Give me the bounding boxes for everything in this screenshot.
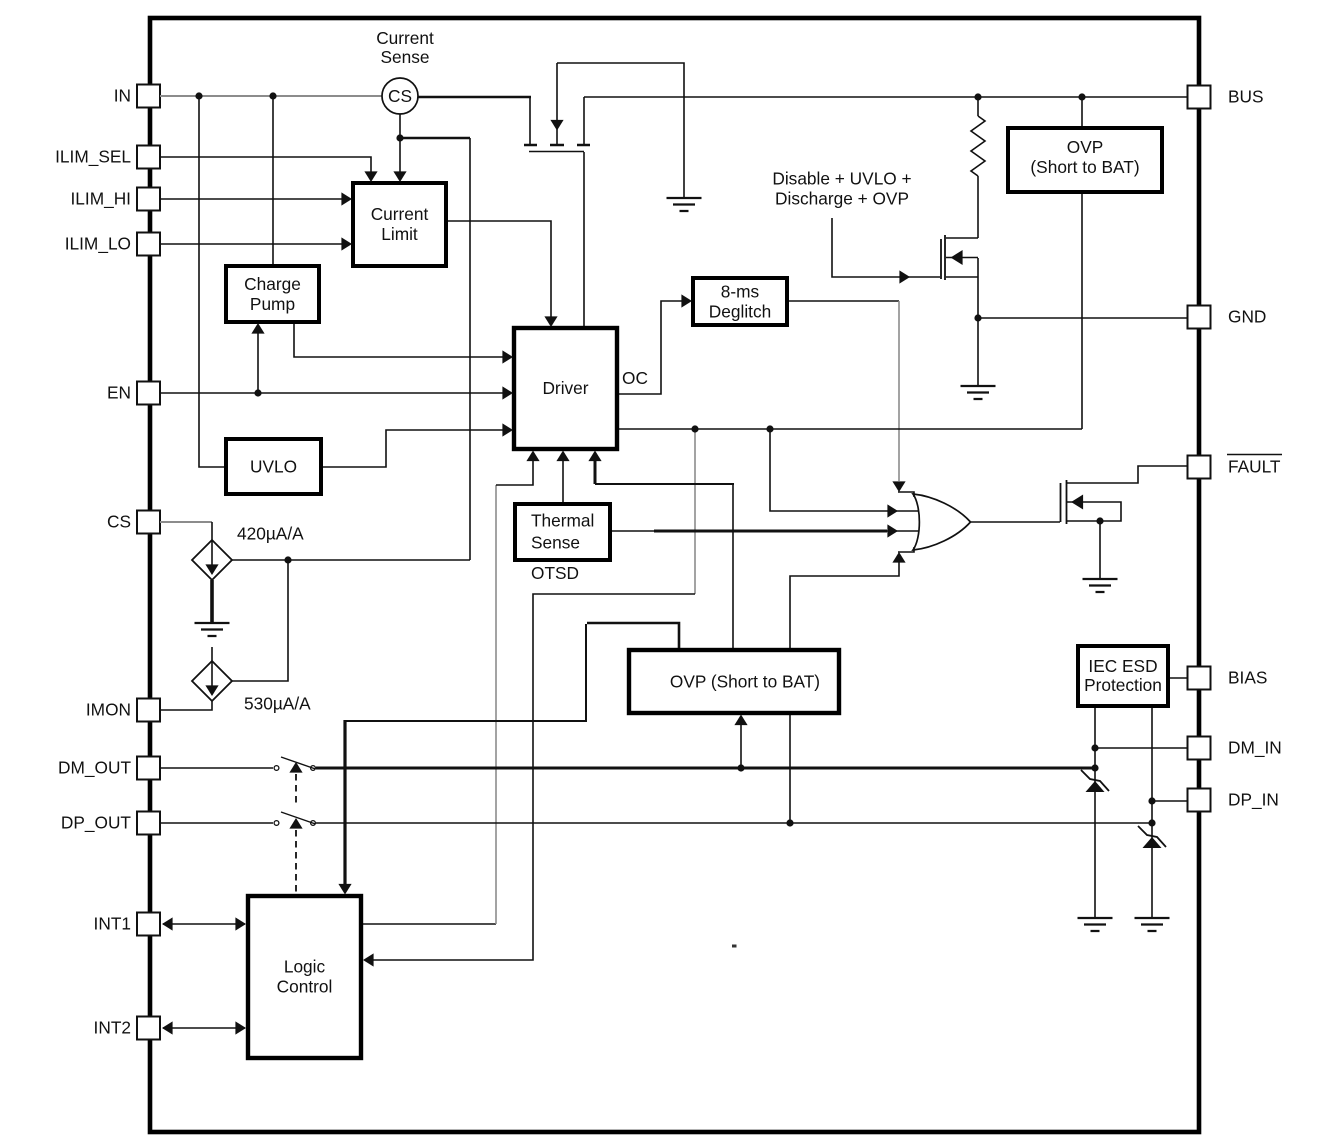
wire DP_OUT to switch bbox=[160, 822, 273, 824]
svg-text:530µA/A: 530µA/A bbox=[244, 694, 311, 714]
junction CS sense node bbox=[396, 134, 403, 141]
svg-text:Sense: Sense bbox=[380, 47, 429, 67]
pin BUS bbox=[1188, 86, 1264, 109]
svg-text:DM_OUT: DM_OUT bbox=[58, 758, 131, 778]
pin ILIM_HI bbox=[70, 188, 160, 211]
wire DM_IN pin link bbox=[1095, 747, 1188, 749]
wire IMON to 530uA source bbox=[160, 701, 212, 710]
svg-text:UVLO: UVLO bbox=[250, 457, 297, 477]
arrow OC into Deglitch bbox=[681, 294, 692, 307]
svg-text:420µA/A: 420µA/A bbox=[237, 524, 304, 544]
wire IEC ESD to BIAS bbox=[1168, 677, 1188, 679]
block IEC ESD Protection bbox=[1078, 646, 1168, 706]
ground M1 body bbox=[667, 198, 702, 211]
wire EN to Driver bbox=[160, 392, 506, 394]
wire OVP middle to Logic Control (thick) bbox=[345, 623, 679, 890]
svg-text:Driver: Driver bbox=[542, 378, 588, 398]
svg-text:Charge: Charge bbox=[244, 274, 301, 294]
pin INT1 bbox=[94, 913, 160, 936]
pin INT2 bbox=[94, 1017, 160, 1040]
svg-text:FAULT: FAULT bbox=[1228, 457, 1281, 477]
wire OVP middle to OR input 4 bbox=[790, 558, 899, 650]
block Thermal Sense bbox=[515, 504, 610, 560]
pin BIAS bbox=[1188, 667, 1268, 690]
wire Current Limit to Driver bbox=[446, 221, 551, 320]
wire BUS to OVP top bbox=[1081, 97, 1083, 128]
arrow UVLO into Driver bbox=[502, 423, 513, 436]
wire UVLO to Driver bbox=[321, 430, 506, 467]
wire Deglitch output bbox=[787, 300, 899, 302]
svg-text:Sense: Sense bbox=[531, 533, 580, 553]
arrow OR input 1 bbox=[892, 481, 905, 492]
svg-text:OVP (Short to BAT): OVP (Short to BAT) bbox=[670, 672, 820, 692]
pin EN bbox=[107, 382, 160, 405]
arrow ILIM_SEL into Current Limit bbox=[364, 171, 377, 182]
junction current mirror node bbox=[284, 556, 291, 563]
pin CS bbox=[107, 511, 160, 534]
wire DM switch to DM_IN node (thick) bbox=[316, 767, 1095, 770]
junction DP_IN node bbox=[1148, 797, 1155, 804]
wire OC net to OR input 2 bbox=[770, 429, 920, 511]
arrow Current Limit into Driver bbox=[544, 316, 557, 327]
pin ILIM_LO bbox=[65, 233, 160, 256]
wire BUS to resistor bbox=[977, 97, 979, 116]
svg-text:DP_IN: DP_IN bbox=[1228, 790, 1279, 810]
junction Q2 source GND bbox=[974, 314, 981, 321]
wire mirror node to 530uA source bbox=[232, 560, 288, 681]
wire CS pin to 420uA source (gray) bbox=[160, 522, 212, 540]
svg-text:Disable + UVLO +: Disable + UVLO + bbox=[772, 169, 911, 189]
arrow into Logic Control right bbox=[363, 953, 374, 966]
svg-text:INT1: INT1 bbox=[94, 914, 131, 934]
svg-text:Discharge + OVP: Discharge + OVP bbox=[775, 189, 909, 209]
svg-text:Current: Current bbox=[371, 204, 429, 224]
svg-text:EN: EN bbox=[107, 383, 131, 403]
svg-text:OC: OC bbox=[622, 368, 648, 388]
svg-text:CS: CS bbox=[388, 86, 412, 106]
wire OC net to Logic Control bbox=[372, 429, 695, 960]
ground 420uA source bbox=[195, 623, 230, 636]
ground ESD DM bbox=[1078, 918, 1113, 931]
svg-text:GND: GND bbox=[1228, 307, 1266, 327]
wire OVP output down to OC net bbox=[1081, 192, 1083, 429]
junction DM OVP sense bbox=[737, 764, 744, 771]
wire IEC ESD leg DP bbox=[1151, 706, 1153, 917]
arrow OR input 4 bbox=[892, 552, 905, 563]
wire Q3 source to ground bbox=[1099, 521, 1101, 578]
wire Q2 source to GND pin bbox=[978, 258, 1188, 385]
pin IN bbox=[114, 85, 160, 108]
wire IN bus (gray) bbox=[160, 95, 382, 97]
wire OVP middle sense DP bbox=[789, 713, 791, 823]
wire 420uA source to mirror node bbox=[232, 559, 470, 561]
block Current Limit bbox=[353, 183, 446, 266]
svg-text:Deglitch: Deglitch bbox=[709, 302, 771, 322]
arrow Charge Pump into Driver bbox=[502, 350, 513, 363]
arrow Thermal Sense into Driver bbox=[556, 451, 569, 462]
wire CS sense to current source node bbox=[400, 138, 470, 560]
wire Charge Pump to Driver bbox=[294, 322, 506, 357]
wire IN to UVLO bbox=[199, 96, 226, 467]
zener diode ESD DM bbox=[1081, 770, 1109, 792]
wire IN to Charge Pump bbox=[272, 96, 274, 266]
pin IMON bbox=[86, 699, 160, 722]
svg-text:DP_OUT: DP_OUT bbox=[61, 813, 132, 833]
arrow OVP middle into Driver bbox=[588, 451, 601, 462]
svg-text:IMON: IMON bbox=[86, 700, 131, 720]
zener diode ESD DP bbox=[1138, 826, 1166, 848]
wire CS sense tap bbox=[399, 114, 401, 138]
pin DP_IN bbox=[1188, 789, 1279, 812]
block Charge Pump bbox=[226, 266, 319, 322]
arrow into Q2 gate bbox=[899, 270, 910, 283]
label Disable + UVLO + Discharge + OVP bbox=[772, 169, 911, 209]
resistor discharge bbox=[971, 116, 985, 176]
arrow OR input 3 bbox=[887, 524, 898, 537]
pin DP_OUT bbox=[61, 812, 160, 835]
wire DM_OUT to switch bbox=[160, 767, 273, 769]
switch SW1 DM bbox=[274, 757, 315, 770]
arrow EN into Driver bbox=[502, 386, 513, 399]
svg-text:(Short to BAT): (Short to BAT) bbox=[1030, 157, 1139, 177]
wire Driver OC to Deglitch bbox=[617, 301, 686, 394]
svg-text:BIAS: BIAS bbox=[1228, 668, 1267, 688]
transistor Q3 fault output bbox=[1061, 480, 1122, 524]
junction BUS resistor tap bbox=[974, 93, 981, 100]
block 8-ms Deglitch bbox=[693, 278, 787, 325]
block UVLO bbox=[226, 439, 321, 494]
wire OR output to Q3 gate bbox=[971, 521, 1060, 523]
block Driver bbox=[514, 328, 617, 449]
wire Thermal Sense OTSD to OR input 3 bbox=[610, 530, 920, 532]
wire Disable+UVLO+Discharge+OVP to Q2 gate bbox=[832, 218, 940, 277]
svg-text:OTSD: OTSD bbox=[531, 563, 579, 583]
arrow DM sense into OVP middle bbox=[734, 715, 747, 726]
svg-text:INT2: INT2 bbox=[94, 1018, 131, 1038]
wire CS circle to M1 source bbox=[418, 96, 531, 99]
pin GND bbox=[1188, 306, 1267, 329]
wire OVP middle sense DM bbox=[740, 719, 742, 768]
wire CS sense to Current Limit bbox=[399, 138, 401, 176]
block OVP Short to BAT top bbox=[1008, 128, 1162, 192]
pin FAULT (active low) bbox=[1188, 455, 1283, 479]
svg-text:Current: Current bbox=[376, 28, 434, 48]
svg-text:BUS: BUS bbox=[1228, 87, 1264, 107]
pin ILIM_SEL bbox=[55, 146, 160, 169]
wire EN branch to Charge Pump bbox=[257, 331, 259, 393]
wire Driver bottom mid to Thermal Sense bbox=[562, 454, 564, 504]
wire IEC ESD leg DM bbox=[1094, 706, 1096, 917]
arrow OVP middle into Logic Control bbox=[338, 884, 351, 895]
transistor M1 power switch bbox=[524, 63, 590, 152]
svg-text:IEC ESD: IEC ESD bbox=[1088, 656, 1157, 676]
OR gate fault logic bbox=[898, 492, 971, 552]
svg-text:Limit: Limit bbox=[381, 224, 418, 244]
IC boundary box bbox=[150, 18, 1199, 1132]
wire Deglitch drop to OR gate (gray) bbox=[898, 301, 900, 481]
arrow INT1 bidirectional bbox=[162, 917, 246, 930]
svg-text:Logic: Logic bbox=[284, 957, 326, 977]
svg-text:ILIM_HI: ILIM_HI bbox=[70, 189, 131, 209]
wire ILIM_LO to Current Limit bbox=[160, 243, 345, 245]
wire OC net bbox=[618, 428, 1082, 430]
arrow EN into Charge Pump bbox=[251, 323, 264, 334]
stray mark bbox=[732, 945, 737, 948]
wire ILIM_HI to Current Limit bbox=[160, 198, 345, 200]
transistor Q2 discharge bbox=[941, 235, 978, 280]
current source 530uA/A bbox=[192, 661, 232, 701]
arrow CS sense into Current Limit bbox=[393, 171, 406, 182]
wire DP_IN pin link bbox=[1152, 800, 1188, 802]
ground ESD DP bbox=[1135, 918, 1170, 931]
arrow ILIM_HI into Current Limit bbox=[341, 192, 352, 205]
junction EN-ChargePump tap bbox=[254, 389, 261, 396]
wire M1 gate to Driver bbox=[583, 152, 585, 328]
wire DP switch to DP_IN node bbox=[316, 822, 1152, 824]
arrow INT2 bidirectional bbox=[162, 1021, 246, 1034]
svg-text:Thermal: Thermal bbox=[531, 511, 594, 531]
switch actuator dashed link bbox=[289, 762, 302, 896]
arrow OR input 2 bbox=[887, 504, 898, 517]
svg-text:ILIM_SEL: ILIM_SEL bbox=[55, 147, 131, 167]
wire resistor to Q2 drain bbox=[977, 176, 979, 238]
junction OC net Logic tap bbox=[691, 425, 698, 432]
junction DP line end bbox=[1148, 819, 1155, 826]
svg-text:OVP: OVP bbox=[1067, 137, 1104, 157]
wire ILIM_SEL to Current Limit bbox=[160, 157, 371, 176]
arrow Logic riser into Driver bbox=[526, 451, 539, 462]
junction IN-ChargePump tap bbox=[269, 92, 276, 99]
svg-text:IN: IN bbox=[114, 86, 131, 106]
svg-text:8-ms: 8-ms bbox=[721, 282, 760, 302]
wire Q3 drain to FAULT pin bbox=[1067, 466, 1188, 483]
block Logic Control bbox=[248, 896, 361, 1058]
svg-text:ILIM_LO: ILIM_LO bbox=[65, 234, 131, 254]
ground Q2 source bbox=[961, 386, 996, 399]
svg-text:Control: Control bbox=[277, 977, 333, 997]
current source 420uA/A bbox=[192, 540, 232, 580]
junction IN-UVLO tap bbox=[195, 92, 202, 99]
wire Logic Control to Driver (gray riser) bbox=[361, 454, 533, 924]
ground Q3 source bbox=[1083, 579, 1118, 592]
junction BUS OVP tap bbox=[1078, 93, 1085, 100]
wire M1 body to ground bbox=[557, 63, 684, 197]
wire 530uA source top tail bbox=[211, 647, 213, 662]
label Current Sense bbox=[376, 28, 434, 67]
block OVP Short to BAT middle bbox=[629, 650, 839, 713]
switch SW2 DP bbox=[274, 812, 315, 825]
wire OVP middle to Driver (thick) bbox=[595, 456, 734, 650]
arrow ILIM_LO into Current Limit bbox=[341, 237, 352, 250]
junction OC net OR tap bbox=[766, 425, 773, 432]
svg-text:DM_IN: DM_IN bbox=[1228, 738, 1282, 758]
wire M1 drain to BUS bbox=[584, 96, 1188, 98]
svg-text:Pump: Pump bbox=[250, 294, 295, 314]
wire 420uA source to ground (thick) bbox=[210, 580, 214, 622]
svg-text:CS: CS bbox=[107, 512, 131, 532]
junction DM_IN node bbox=[1091, 744, 1098, 751]
current sense amplifier CS bbox=[382, 78, 418, 114]
pin DM_OUT bbox=[58, 757, 160, 780]
junction DM line end bbox=[1091, 764, 1098, 771]
svg-text:Protection: Protection bbox=[1084, 675, 1162, 695]
pin DM_IN bbox=[1188, 737, 1282, 760]
junction Q3 source ground tap bbox=[1096, 517, 1103, 524]
junction DP OVP sense bbox=[786, 819, 793, 826]
